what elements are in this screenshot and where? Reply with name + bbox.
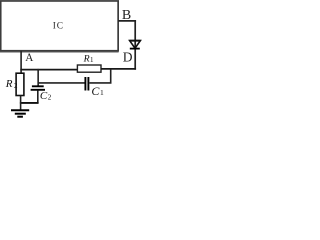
svg-text:A: A xyxy=(25,52,33,64)
diode D triangle xyxy=(130,41,141,49)
wire R1 output to diode xyxy=(101,68,136,70)
resistor R2 box xyxy=(16,73,24,95)
wire diode cathode down xyxy=(134,50,136,70)
wire R2 bottom to ground xyxy=(20,96,22,111)
capacitor C1 right plate xyxy=(87,77,89,91)
wire B pin horizontal xyxy=(118,20,136,22)
capacitor C1 left plate xyxy=(84,77,86,91)
wire jog down to C1 xyxy=(110,69,112,83)
wire B to diode anode vertical xyxy=(134,20,136,48)
svg-text:2: 2 xyxy=(48,94,52,102)
svg-text:1: 1 xyxy=(90,56,94,64)
capacitor C2 top plate xyxy=(32,85,44,87)
ground bar 3 xyxy=(17,116,23,118)
diode D cathode bar xyxy=(130,48,140,50)
wire ground bus C2 to R2 xyxy=(20,102,39,104)
IC box xyxy=(1,1,118,51)
resistor R1 box xyxy=(77,65,101,72)
IC box bottom edge thickening xyxy=(0,51,119,53)
wire C2 bottom lead xyxy=(37,91,39,104)
wire node A down to C2 xyxy=(37,69,39,86)
wire C1 left xyxy=(38,82,84,84)
ground bar 2 xyxy=(15,113,26,115)
svg-text:D: D xyxy=(123,50,133,65)
svg-text:IC: IC xyxy=(53,21,64,31)
svg-text:2: 2 xyxy=(14,82,18,90)
wire node A horizontal branch xyxy=(20,69,77,71)
svg-text:R: R xyxy=(83,53,90,64)
diode D anode top bar xyxy=(129,40,140,42)
svg-text:C: C xyxy=(40,90,48,102)
capacitor C2 bottom plate xyxy=(31,89,45,91)
ground bar 1 xyxy=(11,109,29,111)
svg-text:1: 1 xyxy=(100,88,104,97)
wire C1 right xyxy=(89,82,111,84)
wire IC bottom pin to R2 xyxy=(20,51,22,73)
svg-text:R: R xyxy=(5,78,13,90)
